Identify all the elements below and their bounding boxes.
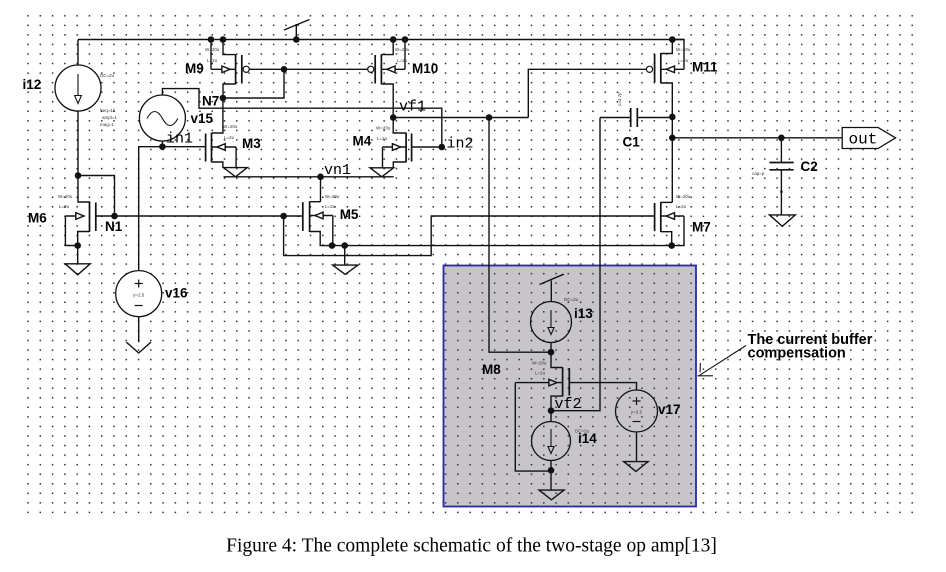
current source i12 xyxy=(55,65,101,111)
wire vn1 down to M5 drain xyxy=(320,177,322,202)
out port symbol xyxy=(842,128,895,149)
svg-text:N1: N1 xyxy=(105,219,123,234)
transistor M8 gate bar xyxy=(568,368,570,396)
svg-text:L=2u: L=2u xyxy=(325,204,336,209)
wire M8 gate to v17 plus terminal xyxy=(569,383,636,390)
svg-text:W=20u: W=20u xyxy=(532,361,547,366)
junction dot node N7 xyxy=(220,95,227,102)
ground stem under M6 xyxy=(77,246,79,264)
current buffer compensation box border xyxy=(444,266,697,507)
wire i12/M6 drain to N1 vertical link xyxy=(78,176,115,217)
wire i14 bottom stub xyxy=(550,461,552,471)
svg-text:i13: i13 xyxy=(574,306,593,321)
svg-text:v16: v16 xyxy=(165,286,188,301)
clock/antenna slash on VDD rail xyxy=(284,20,310,31)
wire i12 top stub to rail xyxy=(77,40,79,66)
svg-text:M9: M9 xyxy=(185,61,204,76)
wire node N7 to mirror gates riser xyxy=(223,69,284,98)
svg-text:vn1: vn1 xyxy=(324,162,351,179)
wire node N1 jog route to M7 gate xyxy=(284,216,655,256)
junction dot C1 right at M11 drain xyxy=(669,114,676,121)
transistor M8 channel bar xyxy=(562,367,564,396)
transistor M3 source lead xyxy=(212,162,223,168)
transistor M5 source lead xyxy=(310,232,332,246)
svg-text:Figure 4: The complete schemat: Figure 4: The complete schematic of the … xyxy=(226,536,717,557)
junction dot i12 bottom xyxy=(75,172,82,179)
capacitor C2 plates xyxy=(769,162,793,164)
svg-text:W=20u: W=20u xyxy=(223,124,238,129)
svg-text:L=2u: L=2u xyxy=(676,204,687,209)
svg-text:W=20u: W=20u xyxy=(376,126,391,131)
junction dot M10 drain at rail xyxy=(390,36,397,43)
svg-text:M3: M3 xyxy=(242,136,261,151)
svg-text:M4: M4 xyxy=(353,134,372,149)
svg-text:out: out xyxy=(849,131,878,149)
transistor M6 drain lead xyxy=(78,176,90,203)
junction dot N1 jog branch xyxy=(280,213,287,220)
transistor M5 gate bar xyxy=(302,202,304,231)
clock/antenna slash above i13 in box xyxy=(540,274,564,284)
svg-text:W=20u: W=20u xyxy=(676,194,691,199)
transistor M6 source lead xyxy=(78,232,90,246)
junction dot M5 source xyxy=(329,242,336,249)
ground stem under i14 xyxy=(550,470,552,490)
svg-text:DC=2u: DC=2u xyxy=(100,73,115,78)
wire vf1 riser to M11 gate xyxy=(528,69,646,117)
svg-text:vf2: vf2 xyxy=(555,396,582,413)
svg-text:in2: in2 xyxy=(447,136,474,153)
transistor M7 drain lead xyxy=(661,201,673,203)
junction dot M10 bulk at rail xyxy=(402,36,409,43)
transistor M7 gate bar xyxy=(654,203,656,231)
wire i13 bottom stub xyxy=(550,343,552,353)
transistor M9 channel bar xyxy=(235,54,237,84)
junction dot M5 ground branch xyxy=(341,242,348,249)
wire vn1 rail between M3 and M4 source triangles xyxy=(224,176,394,178)
ground triangle under M5 xyxy=(333,265,358,274)
svg-text:L=2u: L=2u xyxy=(59,204,70,209)
svg-text:C1: C1 xyxy=(623,135,641,150)
voltage source v16 xyxy=(116,271,162,317)
svg-text:vf1: vf1 xyxy=(399,99,426,116)
ground triangle under i14 xyxy=(539,490,564,500)
transistor M3 gate bar xyxy=(205,134,207,162)
wire node N1 rail M6 gate to M5 gate xyxy=(96,215,303,217)
transistor M9 bulk lead from rail xyxy=(210,40,212,70)
wire M5/M7 source rail xyxy=(332,245,672,247)
wire M9 gate bubble to M10 gate bubble xyxy=(249,68,367,70)
svg-text:M11: M11 xyxy=(692,60,718,75)
wire C2 top stub xyxy=(780,138,782,163)
transistor M9 drain lead xyxy=(223,40,236,55)
wire v15 bottom to node in1 xyxy=(161,141,163,147)
svg-text:W=20u: W=20u xyxy=(395,47,410,52)
svg-text:c=4.7p: c=4.7p xyxy=(617,92,622,106)
transistor M4 bulk lead and arrow xyxy=(383,146,407,148)
svg-text:C2: C2 xyxy=(801,159,818,174)
junction dot node vf2 xyxy=(548,407,555,414)
wire C1 left lead xyxy=(600,117,631,119)
capacitor C1 plates xyxy=(630,108,632,127)
ground stem under M5 xyxy=(344,246,346,266)
transistor M10 gate bubble xyxy=(368,66,374,72)
junction dot M11 at rail xyxy=(669,36,676,43)
wire node vf1 horizontal xyxy=(393,117,528,119)
voltage source v17 in box xyxy=(616,390,658,432)
svg-text:freq=1k: freq=1k xyxy=(100,108,116,113)
wire v15 top to in2 route xyxy=(162,89,441,147)
transistor M6 channel bar xyxy=(89,201,91,232)
svg-text:L=2u: L=2u xyxy=(224,135,235,140)
junction dot mirror gate node xyxy=(281,66,288,73)
svg-text:cap=p: cap=p xyxy=(752,171,765,176)
svg-text:M6: M6 xyxy=(28,211,47,226)
ground triangle under M6 xyxy=(65,264,90,275)
wire node in1 left branch down to v16 xyxy=(139,147,163,271)
junction dot M7 source xyxy=(668,242,675,249)
transistor M8 drain lead xyxy=(551,352,563,367)
transistor M10 gate bar xyxy=(374,55,376,84)
svg-text:M7: M7 xyxy=(692,220,711,235)
transistor M4 source triangle xyxy=(370,168,394,177)
junction dot i14 bottom xyxy=(548,467,555,474)
junction dot vf1 to box drop xyxy=(486,114,493,121)
transistor M4 source lead xyxy=(393,162,406,168)
junction dot node vn1 xyxy=(317,174,324,181)
svg-text:DC=2u: DC=2u xyxy=(564,297,579,302)
current source i14 in box xyxy=(532,422,571,461)
svg-text:M10: M10 xyxy=(412,61,438,76)
transistor M8 source lead to vf2 xyxy=(551,396,563,411)
ground arrow under v16 xyxy=(126,342,150,353)
junction dot node vf1 xyxy=(390,114,397,121)
transistor M3 channel bar xyxy=(211,133,213,163)
transistor M4 drain lead from vf1 xyxy=(393,118,406,134)
svg-text:y=2.5: y=2.5 xyxy=(631,410,643,415)
wire C1 right lead to M11 drain xyxy=(637,117,672,119)
transistor M11 source lead down to C1 node xyxy=(661,83,673,117)
capacitor C2 pin mark xyxy=(780,191,782,193)
junction dot VDD antenna xyxy=(293,36,300,43)
current source i13 in box xyxy=(531,302,572,343)
junction dot C2 tap xyxy=(778,135,785,142)
svg-text:y=2.5: y=2.5 xyxy=(133,293,145,298)
svg-text:L=2u: L=2u xyxy=(377,136,388,141)
svg-text:v17: v17 xyxy=(658,402,681,417)
ground triangle under C2 xyxy=(769,215,795,226)
voltage source v15 xyxy=(139,95,185,141)
wire node in1 to M3 gate xyxy=(162,146,205,148)
transistor M11 channel bar xyxy=(660,53,662,83)
transistor M11 gate bar xyxy=(654,54,656,83)
wire VDD top rail xyxy=(78,39,684,41)
junction dot M9 drain at rail xyxy=(220,36,227,43)
transistor M10 source lead down to vf1 xyxy=(381,84,393,118)
svg-text:N7: N7 xyxy=(202,94,219,109)
transistor M9 gate bubble xyxy=(243,66,249,72)
transistor M6 gate bar xyxy=(95,203,97,232)
transistor M4 gate lead to in2 xyxy=(412,146,442,148)
junction dot out node xyxy=(669,135,676,142)
wire vf1 drop to M8 drain in box xyxy=(489,118,551,353)
transistor M6 bulk lead and arrow xyxy=(65,215,84,217)
junction dot M6 source xyxy=(74,242,81,249)
junction dot node in1 xyxy=(159,143,166,150)
ground triangle under v17 xyxy=(624,462,648,472)
wire out node to out port xyxy=(672,137,842,139)
svg-text:L=2u: L=2u xyxy=(397,58,408,63)
transistor M11 drain lead xyxy=(661,40,673,54)
svg-text:i12: i12 xyxy=(23,77,42,92)
junction dot M8 drain node xyxy=(548,349,555,356)
wire v17 bottom stub xyxy=(636,432,638,462)
svg-text:L=2u: L=2u xyxy=(207,58,218,63)
transistor M3 source triangle xyxy=(224,168,248,177)
svg-text:W=20u: W=20u xyxy=(58,194,73,199)
transistor M7 source lead xyxy=(661,232,672,246)
transistor M4 gate bar xyxy=(411,134,413,162)
clock/antenna mark stub above i13 in box xyxy=(550,281,552,302)
wire M11 drain to out node xyxy=(671,117,673,138)
current buffer compensation box fill xyxy=(444,266,697,507)
annotation arrow to box xyxy=(700,346,747,376)
svg-text:W=20u: W=20u xyxy=(205,47,220,52)
transistor M10 bulk lead from rail xyxy=(404,40,406,70)
transistor M4 channel bar xyxy=(405,133,407,163)
svg-text:W=20u: W=20u xyxy=(325,194,340,199)
wire C1 left plate drop to node vf2 in box xyxy=(551,118,600,411)
svg-text:W=20u: W=20u xyxy=(676,47,691,52)
svg-text:v15: v15 xyxy=(191,111,214,126)
svg-text:L=2u: L=2u xyxy=(678,58,689,63)
wire v16 bottom stub xyxy=(138,317,140,343)
transistor M11 gate bubble xyxy=(646,66,652,72)
junction dot M9 bulk at rail xyxy=(208,36,215,43)
transistor M9 gate bar xyxy=(241,55,243,84)
junction dot node in2 xyxy=(439,144,446,151)
transistor M5 drain lead from vn1 xyxy=(310,201,321,203)
wire node vf2 to i14 top xyxy=(550,411,552,422)
svg-text:M8: M8 xyxy=(482,362,501,377)
svg-text:DC=2u: DC=2u xyxy=(575,429,590,434)
clock/antenna mark stub on VDD rail xyxy=(295,24,297,40)
svg-text:in1: in1 xyxy=(166,131,193,148)
junction dot node N1 xyxy=(111,213,118,220)
wire i12 bottom to node N1 branch xyxy=(77,111,79,176)
transistor M5 channel bar xyxy=(309,201,311,232)
transistor M9 source lead down to N7 xyxy=(223,84,236,98)
transistor M10 drain lead xyxy=(381,40,393,55)
wire C2 bottom stub to ground xyxy=(780,170,782,215)
svg-text:mag=1: mag=1 xyxy=(100,122,114,127)
transistor M7 bulk lead and arrow xyxy=(661,215,684,217)
transistor M5 bulk lead and arrow xyxy=(310,215,333,217)
transistor M3 drain lead up to N7 xyxy=(212,98,223,133)
wire out node down to M7 drain xyxy=(671,138,673,203)
svg-text:compensation: compensation xyxy=(748,346,846,362)
transistor M7 channel bar xyxy=(660,202,662,232)
svg-text:L=2u: L=2u xyxy=(535,371,546,376)
transistor M8 bulk lead and arrow xyxy=(515,382,562,384)
svg-text:M5: M5 xyxy=(340,207,359,222)
svg-text:ampl=1: ampl=1 xyxy=(102,115,117,120)
transistor M10 channel bar xyxy=(380,54,382,84)
transistor M11 bulk lead from rail end xyxy=(672,40,684,70)
transistor M3 bulk lead and arrow xyxy=(212,146,237,148)
